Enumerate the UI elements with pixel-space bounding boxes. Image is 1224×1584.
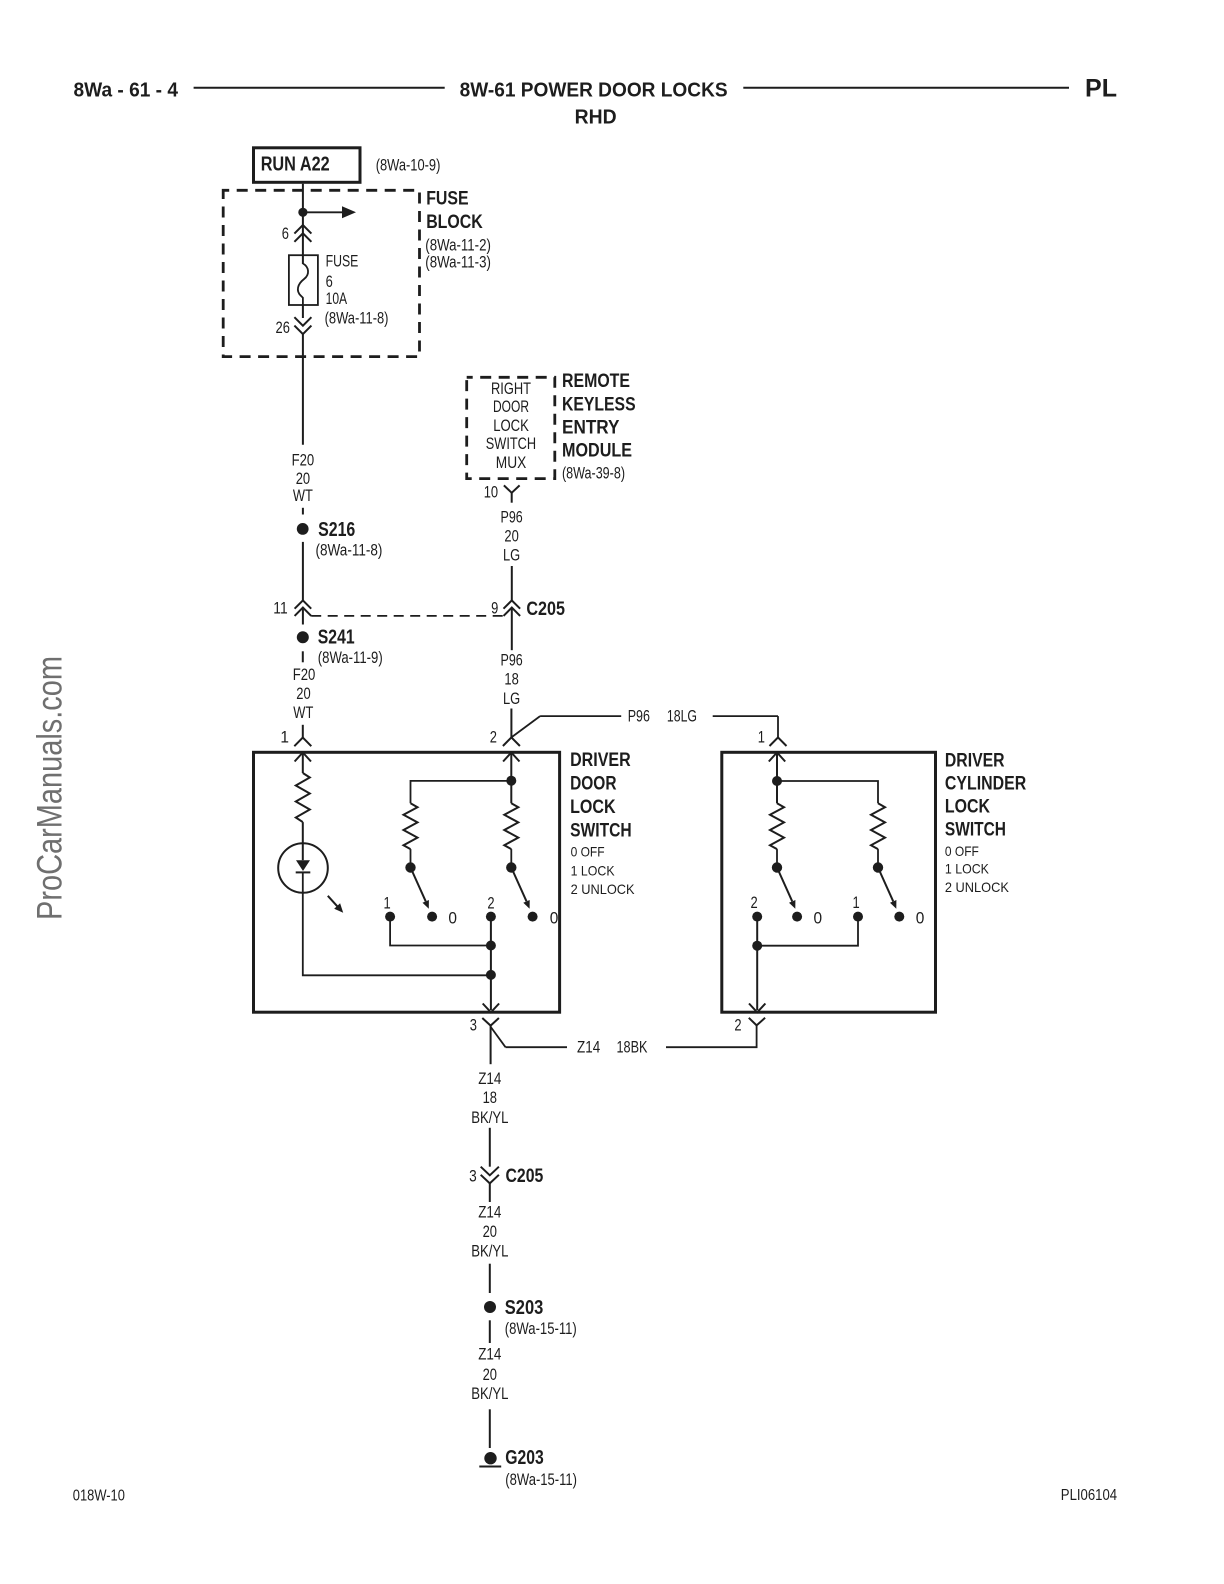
- svg-text:0 OFF: 0 OFF: [945, 843, 979, 859]
- svg-text:0: 0: [550, 909, 559, 927]
- svg-text:S216: S216: [318, 518, 355, 541]
- svg-text:C205: C205: [506, 1166, 544, 1187]
- wire Z14 18BK horizontal: [506, 1046, 568, 1048]
- svg-text:Z14: Z14: [478, 1070, 501, 1088]
- LED cathode bar: [296, 871, 311, 873]
- wire pin 3 down: [490, 1026, 492, 1065]
- svg-text:018W-10: 018W-10: [73, 1488, 125, 1505]
- wire below pin 11: [302, 608, 304, 625]
- svg-text:ENTRY: ENTRY: [562, 418, 620, 439]
- svg-text:F20: F20: [293, 666, 316, 684]
- resistor R3 (unlock side): [504, 803, 518, 849]
- svg-text:0 OFF: 0 OFF: [571, 844, 605, 860]
- wire to S203: [489, 1264, 491, 1293]
- svg-text:G203: G203: [505, 1446, 544, 1469]
- wire to switch pivot: [877, 849, 879, 864]
- switch blade (lock): [411, 868, 426, 902]
- switch pivot dot (unlock): [873, 862, 883, 872]
- switch blade (lock): [777, 868, 792, 902]
- svg-text:LG: LG: [503, 546, 520, 564]
- wire below C205: [489, 1183, 491, 1202]
- svg-text:P96: P96: [501, 652, 523, 670]
- wire pin 2 elbow to Z14 bus: [666, 1025, 757, 1047]
- svg-text:FUSE: FUSE: [426, 188, 468, 209]
- wire to G203: [489, 1409, 491, 1448]
- svg-text:RUN A22: RUN A22: [261, 154, 330, 176]
- pin 26 connector chevrons: [294, 317, 311, 326]
- svg-text:REMOTE: REMOTE: [562, 371, 630, 392]
- wire contact 2 down to pin 2: [756, 921, 758, 1010]
- svg-text:11: 11: [273, 600, 287, 618]
- svg-text:SWITCH: SWITCH: [945, 819, 1006, 840]
- branch diagonal to Z14 18BK bus: [491, 1027, 506, 1047]
- svg-text:6: 6: [282, 225, 289, 243]
- svg-text:DOOR: DOOR: [570, 773, 617, 794]
- contact dot 0 (lock): [427, 912, 437, 922]
- svg-text:18BK: 18BK: [617, 1039, 648, 1057]
- wire module to C205 pin 9: [511, 566, 513, 600]
- svg-text:BK/YL: BK/YL: [471, 1109, 508, 1127]
- svg-text:Z14: Z14: [478, 1204, 501, 1222]
- wire to C205 pin 3: [489, 1128, 491, 1167]
- svg-text:F20: F20: [292, 451, 315, 469]
- resistor R1 (lamp dropping): [296, 773, 310, 822]
- fuse block dashed outline: [223, 190, 419, 356]
- ground G203: [484, 1452, 496, 1464]
- svg-text:MODULE: MODULE: [562, 440, 632, 461]
- junction dot at resistor feed: [506, 776, 516, 786]
- resistor R4 (lock side): [770, 803, 784, 849]
- svg-text:1 LOCK: 1 LOCK: [945, 861, 990, 877]
- pin 3 exit arrowhead: [483, 1004, 499, 1013]
- header rule left: [194, 87, 445, 89]
- svg-text:1: 1: [384, 895, 391, 913]
- svg-text:8Wa - 61 - 4: 8Wa - 61 - 4: [74, 80, 179, 102]
- svg-text:2: 2: [734, 1016, 741, 1034]
- wire to switch pivot: [410, 849, 412, 864]
- wire contact 2 down to pin 3: [490, 921, 492, 1010]
- svg-text:BLOCK: BLOCK: [426, 212, 483, 233]
- svg-text:20: 20: [483, 1223, 497, 1241]
- C205 pin 9 chevrons: [504, 600, 521, 608]
- wire below pin 9: [511, 608, 513, 651]
- contact dot 2: [486, 912, 496, 922]
- svg-text:9: 9: [491, 600, 498, 618]
- header rule right: [743, 87, 1069, 89]
- switch pivot dot (unlock): [506, 862, 516, 872]
- cylinder switch pin 1 fork: [770, 737, 787, 746]
- contact dot 0 (lock): [792, 912, 802, 922]
- wire to switch pivot: [776, 849, 778, 864]
- switch blade (unlock): [878, 868, 893, 902]
- svg-text:8W-61 POWER DOOR LOCKS: 8W-61 POWER DOOR LOCKS: [460, 80, 728, 102]
- wire F20 down from fuse block: [302, 334, 304, 445]
- contact dot 1: [385, 912, 395, 922]
- wire to door switch pin 2: [510, 709, 512, 738]
- svg-text:(8Wa-15-11): (8Wa-15-11): [505, 1320, 577, 1338]
- pin 2 fork below box: [749, 1018, 765, 1026]
- svg-text:26: 26: [276, 319, 290, 337]
- wire S216 to C205 pin 11: [302, 542, 304, 601]
- splice S203: [484, 1301, 496, 1313]
- wire stub above S216: [302, 508, 304, 515]
- pin 2 entry arrowhead: [503, 753, 519, 762]
- svg-text:DRIVER: DRIVER: [570, 750, 631, 771]
- svg-text:6: 6: [326, 273, 333, 291]
- svg-text:3: 3: [469, 1167, 477, 1185]
- svg-text:18: 18: [504, 671, 518, 689]
- splice S216: [297, 523, 309, 535]
- wire resistor to LED: [302, 822, 304, 843]
- driver cylinder lock switch box: [722, 752, 936, 1012]
- wire contact 1 to bus: [390, 921, 491, 946]
- svg-text:LOCK: LOCK: [493, 417, 529, 435]
- C205 pin 11 chevrons: [295, 600, 312, 608]
- svg-text:SWITCH: SWITCH: [486, 435, 536, 453]
- fuse F6 body: [289, 255, 318, 305]
- junction dot mid bus: [486, 941, 496, 951]
- svg-text:LOCK: LOCK: [570, 797, 616, 818]
- svg-text:C205: C205: [526, 599, 565, 620]
- svg-text:S241: S241: [318, 626, 355, 649]
- LED emission arrow: [328, 896, 338, 908]
- svg-text:Z14: Z14: [478, 1346, 501, 1364]
- svg-text:FUSE: FUSE: [326, 252, 359, 270]
- svg-text:2: 2: [751, 894, 758, 912]
- svg-text:(8Wa-11-3): (8Wa-11-3): [425, 253, 491, 271]
- LED diode triangle: [296, 860, 310, 871]
- svg-text:(8Wa-39-8): (8Wa-39-8): [562, 465, 625, 483]
- driver door lock switch box: [254, 752, 560, 1012]
- svg-text:20: 20: [483, 1366, 497, 1384]
- resistor R5 (unlock side): [871, 803, 885, 849]
- wire across to lock resistor: [411, 781, 512, 803]
- contact dot 0 (unlock): [894, 912, 904, 922]
- svg-text:2: 2: [487, 895, 494, 913]
- pin 2 exit arrowhead: [749, 1004, 765, 1013]
- svg-text:WT: WT: [293, 487, 313, 505]
- svg-text:P96: P96: [501, 509, 523, 527]
- svg-text:20: 20: [504, 528, 518, 546]
- wire LED down and across: [303, 872, 491, 975]
- branch arrow to other circuits: [303, 211, 342, 213]
- hot-at-run feed box RUN A22: [254, 148, 361, 183]
- wire across to unlock resistor: [777, 781, 878, 803]
- branch wire P96 18LG to cylinder switch: [511, 716, 540, 737]
- wire below S203: [489, 1320, 491, 1343]
- switch pivot dot (lock): [405, 862, 415, 872]
- wire to door switch pin 1: [302, 725, 304, 738]
- resistor R2 (lock side): [404, 803, 418, 849]
- svg-text:S203: S203: [505, 1296, 544, 1319]
- svg-text:ProCarManuals.com: ProCarManuals.com: [31, 656, 70, 920]
- wire RUN A22 to fuse: [302, 184, 304, 264]
- svg-text:(8Wa-11-8): (8Wa-11-8): [325, 310, 389, 328]
- svg-text:2 UNLOCK: 2 UNLOCK: [571, 881, 636, 897]
- svg-text:2: 2: [490, 729, 497, 747]
- svg-text:DOOR: DOOR: [493, 398, 529, 416]
- svg-text:3: 3: [470, 1017, 477, 1035]
- svg-text:20: 20: [296, 685, 310, 703]
- svg-text:18: 18: [483, 1089, 497, 1107]
- door switch pin 1 fork: [294, 738, 311, 747]
- contact dot 2: [752, 912, 762, 922]
- C205 connector dashed line: [311, 615, 503, 617]
- svg-text:18LG: 18LG: [667, 708, 697, 726]
- wire contact 1 to bus: [757, 921, 858, 946]
- junction dot in fuse block: [298, 208, 307, 217]
- contact dot 1: [853, 912, 863, 922]
- svg-text:P96: P96: [628, 708, 650, 726]
- svg-text:LOCK: LOCK: [945, 796, 990, 817]
- C205 pin 3 chevrons down: [481, 1167, 499, 1176]
- pin 1 entry arrowhead: [295, 753, 311, 762]
- svg-text:0: 0: [814, 909, 823, 927]
- svg-text:2 UNLOCK: 2 UNLOCK: [945, 879, 1010, 895]
- contact dot 0 (unlock): [528, 912, 538, 922]
- svg-text:Z14: Z14: [577, 1039, 600, 1057]
- svg-text:20: 20: [296, 470, 310, 488]
- LED indicator circle: [278, 843, 328, 893]
- svg-text:LG: LG: [503, 690, 520, 708]
- svg-text:(8Wa-11-2): (8Wa-11-2): [425, 237, 491, 255]
- svg-text:DRIVER: DRIVER: [945, 751, 1005, 772]
- svg-text:SWITCH: SWITCH: [570, 820, 632, 841]
- pin 6 connector chevrons: [294, 225, 311, 234]
- junction dot lower: [486, 970, 496, 980]
- switch blade (unlock): [511, 868, 526, 902]
- module pin 10 fork: [504, 485, 520, 492]
- wire stub below S241: [302, 651, 304, 662]
- junction dot bus: [752, 941, 762, 951]
- svg-text:1 LOCK: 1 LOCK: [571, 862, 616, 878]
- pin 1 entry arrowhead: [769, 753, 785, 762]
- svg-text:WT: WT: [293, 704, 313, 722]
- switch pivot dot (lock): [772, 862, 782, 872]
- svg-text:KEYLESS: KEYLESS: [562, 394, 636, 415]
- wire to switch pivot: [510, 849, 512, 864]
- svg-text:RHD: RHD: [575, 106, 617, 128]
- svg-text:(8Wa-11-9): (8Wa-11-9): [318, 649, 383, 667]
- svg-text:PL: PL: [1085, 75, 1117, 103]
- svg-text:CYLINDER: CYLINDER: [945, 773, 1027, 794]
- svg-text:MUX: MUX: [496, 454, 527, 472]
- svg-text:BK/YL: BK/YL: [471, 1385, 508, 1403]
- junction dot at resistor feed: [772, 776, 782, 786]
- splice S241: [297, 631, 309, 643]
- svg-text:(8Wa-10-9): (8Wa-10-9): [376, 157, 441, 175]
- wire fuse to pin 26: [302, 305, 304, 318]
- remote keyless entry module dashed outline: [467, 377, 555, 478]
- svg-text:1: 1: [280, 729, 289, 747]
- svg-text:(8Wa-11-8): (8Wa-11-8): [316, 542, 383, 560]
- svg-text:1: 1: [758, 729, 765, 747]
- svg-text:PLI06104: PLI06104: [1061, 1487, 1117, 1504]
- svg-text:10A: 10A: [326, 290, 348, 308]
- svg-text:1: 1: [853, 894, 860, 912]
- svg-text:BK/YL: BK/YL: [471, 1243, 508, 1261]
- svg-text:10: 10: [484, 484, 498, 502]
- svg-text:(8Wa-15-11): (8Wa-15-11): [505, 1471, 577, 1489]
- door switch pin 2 fork: [503, 737, 520, 746]
- svg-text:RIGHT: RIGHT: [491, 380, 531, 398]
- svg-text:0: 0: [448, 909, 457, 927]
- pin 3 fork below door switch: [482, 1018, 499, 1026]
- svg-text:0: 0: [916, 909, 925, 927]
